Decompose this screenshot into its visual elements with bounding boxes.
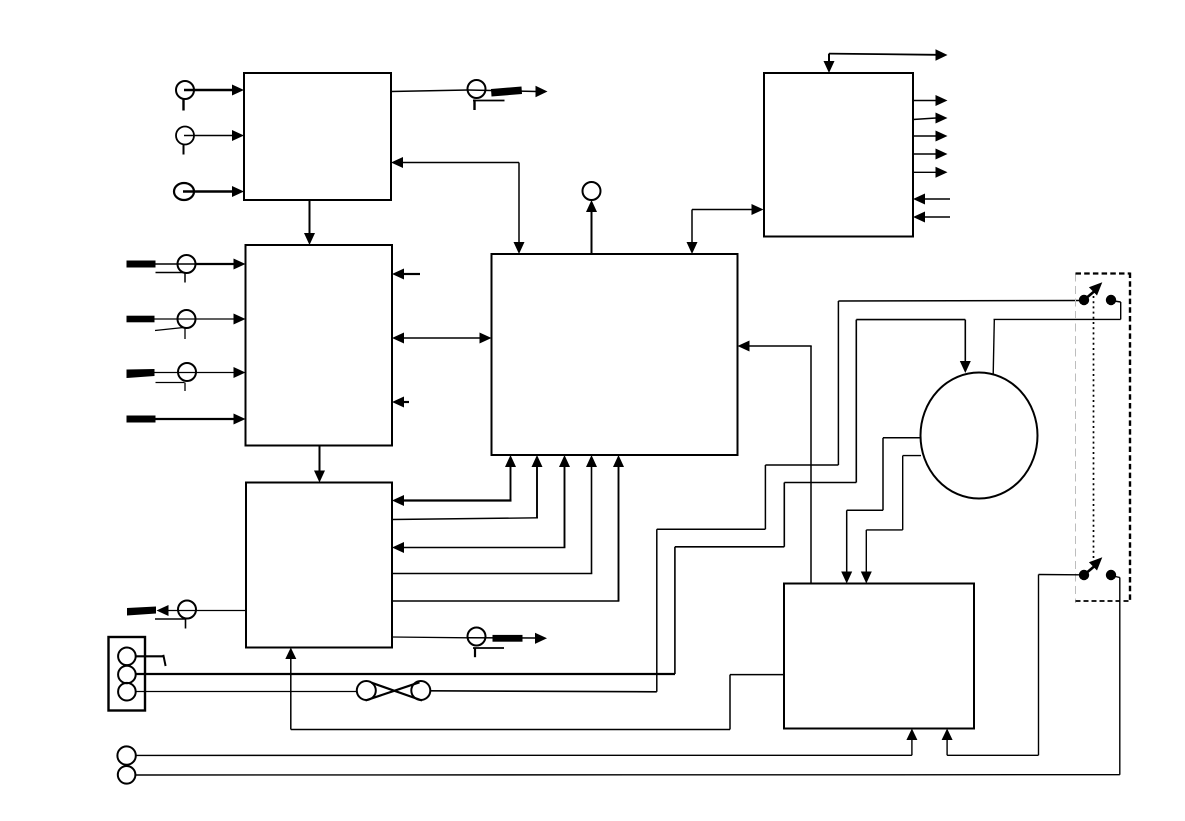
block A (top-left) bbox=[244, 73, 391, 200]
wire A-out segment bbox=[468, 90, 537, 92]
block E input arrow 2 bbox=[913, 212, 950, 223]
stub arrow into block B right (lower) bbox=[392, 397, 409, 408]
terminal B2 (bar + circle) bbox=[127, 310, 197, 339]
wire D bottom pin4 to block C bbox=[392, 455, 597, 574]
connector J1 pin 1 circle bbox=[118, 648, 166, 667]
block C (bottom-left) bbox=[246, 483, 392, 648]
wire A3 to block A bbox=[183, 186, 244, 197]
wire B1 to block B bbox=[196, 259, 246, 270]
terminal A1 bbox=[176, 81, 194, 111]
wire R continued to switch S1 bbox=[430, 301, 1080, 692]
dashed enclosure right bbox=[1129, 273, 1131, 603]
wire B4 to block B bbox=[156, 414, 246, 425]
wire block A output bbox=[391, 90, 468, 92]
block D (central) bbox=[492, 254, 738, 455]
wire terminal 1 to block F bottom pin bbox=[136, 729, 918, 756]
wire D bottom pin5 to block C bbox=[392, 455, 624, 601]
switch S2 (bottom) bbox=[1079, 557, 1116, 580]
wire block F bottom to switch S2 left contact bbox=[942, 575, 1079, 756]
block E (top-right) bbox=[764, 73, 913, 237]
double arrow block B - block D bbox=[392, 333, 492, 344]
wire A2 to block A bbox=[184, 130, 244, 141]
wire R: J1 pin3 through transposition to switch S1 bbox=[136, 691, 357, 693]
terminal B1 (bar + circle) bbox=[127, 255, 197, 283]
stub arrow into block B right (upper) bbox=[392, 269, 420, 280]
wire D bottom pin1 to block C bbox=[392, 455, 516, 506]
wire block F left to block C bottom bbox=[285, 648, 784, 730]
wire block D top to block E (double arrow) bbox=[687, 204, 764, 254]
wire A1 to block A bbox=[184, 85, 244, 96]
machine M (circle) bbox=[921, 373, 1038, 499]
wire block F top to block D right bbox=[738, 341, 812, 584]
terminal bottom-left 2 bbox=[118, 766, 136, 784]
terminal B3 (bar + circle) bbox=[127, 363, 197, 391]
terminal A3 bbox=[174, 183, 194, 200]
block E output arrow 3 bbox=[913, 131, 948, 142]
wire D bottom pin2 to block C bbox=[392, 455, 543, 520]
block E output arrow 2 bbox=[913, 113, 948, 124]
terminal B4 (bar) bbox=[127, 416, 156, 423]
connector J1 pin 2 circle bbox=[118, 666, 136, 684]
terminal C-right output bbox=[392, 628, 547, 658]
switch S1 (top) bbox=[1079, 282, 1116, 305]
terminal bottom-left 1 bbox=[117, 746, 135, 764]
wire block E top output bbox=[824, 49, 948, 73]
dashed enclosure (ganged switch) bbox=[1075, 274, 1077, 604]
dashed enclosure top bbox=[1076, 272, 1131, 274]
block F (bottom-right) bbox=[784, 584, 974, 729]
wire P: J1 pin2 to machine M top bbox=[136, 320, 971, 674]
block E input arrow 1 bbox=[913, 194, 950, 205]
dashed enclosure bottom bbox=[1076, 600, 1131, 602]
terminal A-out circle bbox=[468, 80, 486, 98]
wire terminal 2 to switch S2 right contact bbox=[135, 576, 1119, 776]
block E output arrow 1 bbox=[913, 95, 948, 106]
wire block A to block B bbox=[304, 200, 315, 245]
connector J1 (3-pin, bottom-left) bbox=[109, 637, 146, 711]
terminal C-left output bbox=[127, 601, 246, 629]
marker under A-out terminal bbox=[473, 100, 505, 111]
wire block B to block C bbox=[314, 446, 325, 483]
wire machine M left to block F top pin1 bbox=[841, 438, 920, 584]
wire Q: machine M top to switch S1 right contact bbox=[993, 301, 1120, 375]
terminal A2 bbox=[176, 127, 194, 155]
wire B3 to block B bbox=[196, 367, 246, 378]
connector J1 pin 3 circle bbox=[118, 683, 136, 701]
terminal D-top circle bbox=[583, 182, 601, 200]
block B (mid-left) bbox=[246, 245, 393, 446]
arrow A-out bbox=[536, 86, 548, 97]
wire block D top to terminal bbox=[586, 200, 597, 254]
wire D-top to block A right (double arrow) bbox=[391, 157, 525, 254]
wire D bottom pin3 to block C bbox=[392, 455, 570, 553]
wire B2 to block B bbox=[196, 314, 246, 325]
mechanical link (dash-dot) between switches bbox=[1093, 296, 1095, 560]
fuse bar A-out bbox=[491, 87, 522, 97]
block E output arrow 5 bbox=[913, 167, 948, 178]
wire machine M left to block F top pin2 bbox=[861, 456, 921, 584]
transposition symbol (twisted pair) bbox=[357, 681, 431, 701]
block E output arrow 4 bbox=[913, 149, 948, 160]
